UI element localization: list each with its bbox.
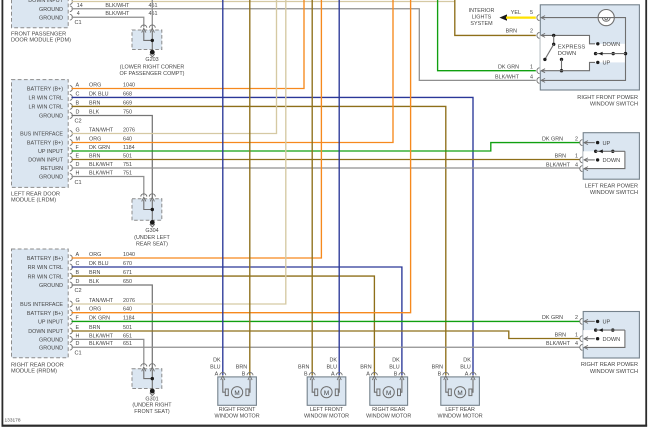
right front motor internal wires [223, 379, 250, 393]
svg-text:668: 668 [123, 91, 132, 97]
LRDM caption [11, 192, 60, 204]
svg-text:LR WIN CTRL: LR WIN CTRL [29, 96, 63, 102]
wire ORG 640 LRDM-M [72, 0, 394, 143]
wire ORG 1040 RRDM-A [72, 0, 322, 258]
G301 connector arrows [141, 364, 156, 372]
svg-text:A: A [215, 371, 219, 377]
G304 connector arrows [141, 194, 156, 202]
svg-text:M: M [234, 390, 239, 397]
svg-text:651: 651 [123, 341, 132, 347]
wire BRN 501 LRDM-E to left rear switch pin1 [72, 159, 580, 161]
G301 caption [132, 397, 172, 416]
svg-text:BRN: BRN [506, 29, 517, 35]
ground splice G301 box [132, 369, 162, 389]
border frame left [2, 0, 4, 427]
svg-text:670: 670 [123, 261, 132, 267]
svg-text:4: 4 [575, 341, 578, 347]
G304 internal wires [144, 200, 153, 222]
right front power window switch box [540, 5, 639, 90]
G203 caption [120, 57, 185, 77]
left rear switch pin 1 [580, 157, 583, 163]
svg-text:BLK/WHT: BLK/WHT [89, 341, 114, 347]
right rear door module (RRDM) box [12, 249, 69, 358]
svg-text:WINDOW SWITCH: WINDOW SWITCH [590, 190, 638, 196]
RRDM connector label C2 [75, 288, 82, 294]
left rear switch pin4 label BLK/WHT [546, 162, 578, 168]
left rear switch pin 2 [580, 140, 583, 146]
svg-text:D: D [76, 341, 80, 347]
switch1 pin5 label YEL [511, 10, 533, 16]
svg-text:M: M [324, 390, 329, 397]
svg-text:LIGHTS: LIGHTS [472, 15, 492, 21]
svg-text:INTERIOR: INTERIOR [469, 8, 495, 14]
svg-text:H: H [76, 171, 80, 177]
svg-text:M: M [76, 137, 81, 143]
svg-text:C1: C1 [75, 20, 82, 26]
right rear switch pin2 label DK GRN [542, 315, 578, 321]
svg-text:B: B [76, 100, 80, 106]
LRDM pin F UP INPUT [38, 145, 135, 155]
right front motor pin A [210, 357, 226, 380]
svg-text:E: E [76, 325, 80, 331]
RRDM pin B RR WIN CTRL [28, 270, 132, 280]
wire YEL to switch1 pin5 [506, 17, 536, 19]
right rear switch pin 2 [580, 319, 583, 325]
right rear motor pin B [389, 357, 405, 380]
switch1 wire pin5 to lamp [541, 17, 598, 19]
LRDM pin M BATTERY (B+) [27, 137, 132, 147]
right rear switch UP contact [596, 320, 611, 326]
svg-text:BATTERY (B+): BATTERY (B+) [27, 141, 63, 147]
left rear switch wiper contact [594, 149, 625, 153]
right rear motor pin A [360, 364, 377, 380]
wire TAN/WHT 2076 LRDM-G [72, 0, 277, 134]
svg-text:UP: UP [603, 141, 611, 147]
svg-text:FRONT SEAT): FRONT SEAT) [134, 409, 170, 415]
left rear switch wire pin4 to wiper [584, 151, 625, 168]
wire BRN to right front motor B [249, 0, 251, 375]
svg-text:BATTERY (B+): BATTERY (B+) [27, 256, 63, 262]
svg-text:SYSTEM: SYSTEM [470, 21, 493, 27]
right front motor symbol [225, 387, 249, 398]
svg-text:BRN: BRN [89, 325, 100, 331]
left rear switch pin2 label DK GRN [542, 136, 578, 142]
left front motor symbol [315, 387, 339, 398]
svg-text:UP: UP [603, 320, 611, 326]
svg-text:2076: 2076 [123, 298, 135, 304]
switch1 caption [577, 95, 638, 108]
svg-text:1184: 1184 [123, 315, 135, 321]
svg-text:GROUND: GROUND [39, 7, 63, 13]
svg-text:BATTERY (B+): BATTERY (B+) [27, 87, 63, 93]
svg-text:M: M [457, 390, 462, 397]
RRDM pin A BATTERY (B+) [27, 252, 135, 262]
right rear switch wire pin2 to UP contact [584, 320, 595, 322]
left rear motor pin A [460, 357, 476, 380]
svg-text:1040: 1040 [123, 83, 135, 89]
svg-text:1: 1 [530, 64, 533, 70]
PDM pin (cut off row) DOWN INPUT [28, 0, 72, 4]
svg-text:BRN: BRN [555, 154, 566, 160]
left rear door module (LRDM) box [12, 80, 69, 188]
svg-text:669: 669 [123, 100, 132, 106]
RRDM caption [11, 363, 64, 375]
RRDM pin C RR WIN CTRL [28, 261, 132, 271]
switch1 UP contact [596, 61, 610, 67]
left rear switch white area [583, 151, 625, 168]
wire BLK/WHT 751 LRDM-D to left rear switch pin4 [72, 167, 580, 169]
svg-text:A: A [465, 371, 469, 377]
svg-text:GROUND: GROUND [39, 338, 63, 344]
svg-text:(UNDER LEFT: (UNDER LEFT [134, 235, 170, 241]
svg-text:DK: DK [392, 357, 400, 363]
svg-text:651: 651 [123, 333, 132, 339]
svg-text:BLK: BLK [89, 279, 100, 285]
svg-text:BRN: BRN [236, 364, 247, 370]
switch1 pin 5 [537, 15, 540, 21]
ground G301 symbol [150, 389, 155, 396]
svg-text:C2: C2 [75, 119, 82, 125]
svg-text:BLK/WHT: BLK/WHT [495, 74, 520, 80]
LRDM pin C LR WIN CTRL [29, 91, 132, 101]
switch1 pin1 label DK GRN [498, 64, 533, 70]
switch1 pin 1 [537, 68, 540, 74]
svg-text:M: M [386, 390, 391, 397]
svg-text:GROUND: GROUND [39, 175, 63, 181]
svg-text:2076: 2076 [123, 128, 135, 134]
RRDM pin D GROUND [39, 341, 132, 351]
svg-text:1: 1 [575, 333, 578, 339]
svg-text:DOWN INPUT: DOWN INPUT [28, 329, 63, 335]
svg-text:(LOWER RIGHT CORNER: (LOWER RIGHT CORNER [120, 65, 185, 71]
svg-text:BLK: BLK [89, 110, 100, 116]
svg-text:BLK/WHT: BLK/WHT [546, 162, 571, 168]
svg-text:640: 640 [123, 137, 132, 143]
svg-text:WINDOW MOTOR: WINDOW MOTOR [438, 414, 483, 420]
svg-text:ORG: ORG [89, 252, 101, 258]
svg-text:1184: 1184 [123, 145, 135, 151]
svg-text:RIGHT FRONT: RIGHT FRONT [219, 407, 256, 413]
svg-text:D: D [76, 110, 80, 116]
svg-text:DOWN INPUT: DOWN INPUT [28, 0, 63, 4]
svg-text:451: 451 [149, 3, 158, 9]
wire DK BLU 668 LRDM-C to left rear motor A [72, 97, 474, 375]
RRDM pin M BATTERY (B+) [27, 307, 132, 317]
svg-text:BRN: BRN [298, 364, 309, 370]
svg-text:A: A [76, 252, 80, 258]
svg-text:BRN: BRN [89, 154, 100, 160]
ground G304 symbol [150, 220, 155, 227]
wire BRN to right front switch pin2 [455, 0, 536, 35]
svg-text:BUS INTERFACE: BUS INTERFACE [20, 302, 63, 308]
wire ORG 640 RRDM-M [72, 0, 411, 313]
wire BRN 669 LRDM-B to left rear motor B [72, 106, 446, 375]
wire TAN/WHT 2076 RRDM-G [72, 0, 286, 304]
switch1 pin 2 [537, 33, 540, 39]
left front motor caption [304, 407, 349, 420]
left rear switch wire pin2 to UP contact [584, 142, 595, 144]
left front motor pin A [327, 357, 343, 380]
PDM caption [11, 32, 71, 44]
wire DK GRN 1184 LRDM-F to left rear switch pin2 [72, 143, 580, 151]
svg-text:B: B [394, 371, 398, 377]
switch1 white area right [590, 44, 626, 63]
left rear switch UP contact [596, 141, 611, 147]
left rear window motor box [441, 377, 480, 405]
switch1 pin2 label BRN [506, 29, 533, 35]
LRDM pin G BUS INTERFACE [20, 128, 135, 138]
right rear motor symbol [377, 387, 401, 398]
svg-text:GROUND: GROUND [39, 15, 63, 21]
svg-text:501: 501 [123, 154, 132, 160]
svg-text:BLU: BLU [327, 364, 338, 370]
svg-text:C: C [76, 261, 80, 267]
svg-text:DOWN: DOWN [603, 337, 621, 343]
LRDM pin A BATTERY (B+) [27, 83, 135, 93]
svg-text:M: M [76, 307, 81, 313]
switch1 pin 4 [537, 78, 540, 84]
left rear motor internal wires [446, 379, 473, 393]
PDM pin 14 GROUND [39, 3, 157, 13]
wire BRN to left front motor B [311, 0, 313, 375]
svg-text:751: 751 [123, 171, 132, 177]
wire BLK 750 LRDM-D to G304 [72, 116, 153, 200]
svg-text:501: 501 [123, 325, 132, 331]
svg-text:RR WIN CTRL: RR WIN CTRL [28, 265, 63, 271]
RRDM pin F UP INPUT [38, 315, 135, 325]
svg-text:ORG: ORG [89, 83, 101, 89]
wire BLK/WHT 651 RRDM-D to right rear switch pin4 [72, 346, 580, 348]
svg-text:G301: G301 [145, 397, 158, 403]
right rear window motor box [370, 377, 408, 405]
svg-text:BRN: BRN [432, 364, 443, 370]
RRDM pin H GROUND [39, 333, 132, 343]
switch1 DOWN contact [596, 42, 620, 48]
wire DK BLU to right front motor A [222, 0, 224, 375]
svg-text:BLK/WHT: BLK/WHT [546, 341, 571, 347]
switch1 wiper contact [594, 52, 627, 56]
wire BLK 650 RRDM-D to G301 [72, 285, 153, 369]
svg-text:H: H [76, 333, 80, 339]
svg-text:2: 2 [575, 136, 578, 142]
svg-text:DK BLU: DK BLU [89, 91, 109, 97]
svg-text:ORG: ORG [89, 307, 101, 313]
svg-text:DOWN: DOWN [603, 158, 621, 164]
svg-text:BRN: BRN [555, 333, 566, 339]
right front motor caption [215, 407, 260, 420]
left rear switch pin1 label BRN [555, 154, 578, 160]
right rear switch DOWN contact [596, 337, 620, 343]
svg-text:1040: 1040 [123, 252, 135, 258]
left front window motor box [307, 377, 346, 405]
svg-text:UP INPUT: UP INPUT [38, 320, 64, 326]
lamp (switch illumination) [598, 10, 614, 26]
LRDM pin B LR WIN CTRL [29, 100, 132, 110]
svg-text:B: B [242, 371, 246, 377]
svg-text:671: 671 [123, 270, 132, 276]
LRDM pin E DOWN INPUT [28, 154, 132, 164]
svg-text:RIGHT FRONT POWER: RIGHT FRONT POWER [577, 95, 638, 101]
switch1 wire lamp to right vertical and down to pin4 [541, 18, 625, 81]
svg-text:D: D [76, 162, 80, 168]
right front motor pin B [236, 364, 253, 380]
svg-text:OF PASSENGER COMPT): OF PASSENGER COMPT) [120, 71, 185, 77]
svg-text:EXPRESS: EXPRESS [558, 45, 586, 51]
svg-text:BLU: BLU [210, 364, 221, 370]
left rear switch DOWN contact [596, 158, 620, 164]
svg-text:GROUND: GROUND [39, 283, 63, 289]
switch1 express down switch [543, 34, 555, 61]
wire DK GRN to right front switch pin1 [438, 0, 536, 71]
wire BLK/WHT 751 LRDM-H to G304 [72, 177, 144, 196]
right rear switch pin 4 [580, 345, 583, 351]
svg-text:750: 750 [123, 110, 132, 116]
arrow to interior lights system [499, 14, 507, 20]
svg-text:WINDOW MOTOR: WINDOW MOTOR [304, 414, 349, 420]
svg-text:14: 14 [77, 3, 83, 9]
PDM connector label C1 [75, 20, 82, 26]
right rear power window switch box [583, 312, 639, 359]
right rear motor caption [366, 407, 411, 420]
right rear switch wire pin4 to wiper [584, 330, 625, 347]
wire BLK/WHT 451 pin14 to right front switch pin4 [72, 9, 536, 81]
svg-text:E: E [76, 154, 80, 160]
right rear switch white area [583, 330, 625, 347]
switch1 EXPRESS DOWN label [558, 45, 586, 58]
svg-text:LEFT REAR: LEFT REAR [445, 407, 475, 413]
svg-text:GROUND: GROUND [39, 114, 63, 120]
svg-text:WINDOW SWITCH: WINDOW SWITCH [590, 102, 638, 108]
left rear switch caption [585, 183, 638, 196]
svg-text:RR WIN CTRL: RR WIN CTRL [28, 274, 63, 280]
right rear switch pin4 label BLK/WHT [546, 341, 578, 347]
svg-text:BLK/WHT: BLK/WHT [89, 333, 114, 339]
switch1 pin4 label BLK/WHT [495, 74, 533, 80]
svg-text:B: B [76, 270, 80, 276]
svg-text:A: A [331, 371, 335, 377]
G203 junction node [151, 39, 154, 42]
svg-text:WINDOW SWITCH: WINDOW SWITCH [590, 369, 638, 375]
svg-text:RETURN: RETURN [41, 166, 64, 172]
wire TAN/WHT (top bus) [72, 1, 455, 3]
svg-text:BLK/WHT: BLK/WHT [89, 171, 114, 177]
G304 caption [134, 228, 170, 247]
svg-text:C1: C1 [75, 180, 82, 186]
right rear switch pin 1 [580, 336, 583, 342]
svg-text:4: 4 [530, 74, 533, 80]
svg-text:WINDOW MOTOR: WINDOW MOTOR [215, 414, 260, 420]
G301 internal wires [144, 370, 153, 391]
svg-text:BRN: BRN [89, 100, 100, 106]
wire DK BLU 670 RRDM-C to right rear motor B [72, 267, 402, 375]
front passenger door module (PDM) box [12, 0, 69, 28]
svg-text:DOWN: DOWN [558, 51, 576, 57]
LRDM pin H GROUND [39, 171, 132, 181]
svg-text:A: A [76, 83, 80, 89]
svg-text:BLU: BLU [389, 364, 400, 370]
svg-text:BATTERY (B+): BATTERY (B+) [27, 311, 63, 317]
svg-text:D: D [76, 279, 80, 285]
svg-text:133178: 133178 [5, 417, 21, 423]
left front motor pin B [298, 364, 315, 380]
wire BLK/WHT 451 pin4 to G203 [72, 17, 144, 27]
svg-text:TAN/WHT: TAN/WHT [89, 128, 114, 134]
ground splice G304 box [132, 199, 162, 221]
svg-text:MODULE (RRDM): MODULE (RRDM) [11, 369, 57, 375]
svg-text:ORG: ORG [89, 137, 101, 143]
right rear switch wire pin1 to DOWN contact [584, 338, 595, 340]
svg-text:RIGHT REAR POWER: RIGHT REAR POWER [581, 362, 638, 368]
svg-text:G: G [76, 128, 80, 134]
wire BLK/WHT 651 RRDM-H to G301 [72, 339, 144, 365]
svg-text:DK GRN: DK GRN [542, 315, 563, 321]
svg-text:DK GRN: DK GRN [498, 64, 519, 70]
svg-text:DOWN: DOWN [603, 42, 621, 48]
left rear motor pin B [432, 364, 449, 380]
svg-text:G203: G203 [145, 57, 158, 63]
svg-text:DK BLU: DK BLU [89, 261, 109, 267]
svg-text:LEFT FRONT: LEFT FRONT [310, 407, 344, 413]
svg-text:BLK/WHT: BLK/WHT [105, 11, 130, 17]
svg-text:BRN: BRN [360, 364, 371, 370]
border frame right [645, 0, 647, 427]
svg-text:TAN/WHT: TAN/WHT [89, 298, 114, 304]
ground splice G203 box [132, 30, 162, 50]
LRDM pin D RETURN [41, 162, 132, 172]
svg-text:BUS INTERFACE: BUS INTERFACE [20, 132, 63, 138]
LRDM connector label C1 [75, 180, 82, 186]
wire BLK/WHT 451 from top to G203 [151, 0, 153, 31]
interior lights system callout [469, 8, 495, 27]
svg-text:2: 2 [530, 29, 533, 35]
svg-text:DOWN INPUT: DOWN INPUT [28, 158, 63, 164]
svg-text:B: B [304, 371, 308, 377]
wire BRN 671 RRDM-B to right rear motor A [72, 276, 375, 375]
svg-text:LEFT REAR POWER: LEFT REAR POWER [585, 183, 638, 189]
right front window motor box [218, 377, 257, 405]
svg-text:MODULE (LRDM): MODULE (LRDM) [11, 198, 56, 204]
svg-text:DK: DK [463, 357, 471, 363]
svg-text:C2: C2 [75, 288, 82, 294]
svg-text:C1: C1 [75, 351, 82, 357]
svg-text:G: G [76, 298, 80, 304]
RRDM pin G BUS INTERFACE [20, 298, 135, 308]
G304 junction node [151, 208, 154, 211]
svg-text:650: 650 [123, 279, 132, 285]
svg-text:2: 2 [575, 315, 578, 321]
G301 junction node [151, 377, 154, 380]
svg-text:(UNDER RIGHT: (UNDER RIGHT [132, 403, 172, 409]
svg-text:GROUND: GROUND [39, 345, 63, 351]
svg-text:G304: G304 [145, 228, 158, 234]
svg-text:BLK/WHT: BLK/WHT [89, 162, 114, 168]
wire DK BLU to left front motor A [338, 0, 340, 375]
PDM pin 4 GROUND [39, 11, 157, 21]
svg-text:DOOR MODULE (PDM): DOOR MODULE (PDM) [11, 37, 71, 43]
switch1 express down contact to pin1 wire [560, 58, 563, 73]
right rear switch pin1 label BRN [555, 333, 578, 339]
svg-text:A: A [366, 371, 370, 377]
svg-text:WINDOW MOTOR: WINDOW MOTOR [366, 414, 411, 420]
svg-text:DK: DK [330, 357, 338, 363]
ground G203 symbol [150, 50, 155, 57]
switch1 wire pin2 to DOWN contact [541, 35, 595, 43]
G203 internal wires [144, 31, 153, 52]
svg-text:B: B [438, 371, 442, 377]
svg-text:REAR SEAT): REAR SEAT) [136, 241, 168, 247]
left rear switch pin 4 [580, 166, 583, 172]
switch1 white area left [540, 35, 589, 70]
